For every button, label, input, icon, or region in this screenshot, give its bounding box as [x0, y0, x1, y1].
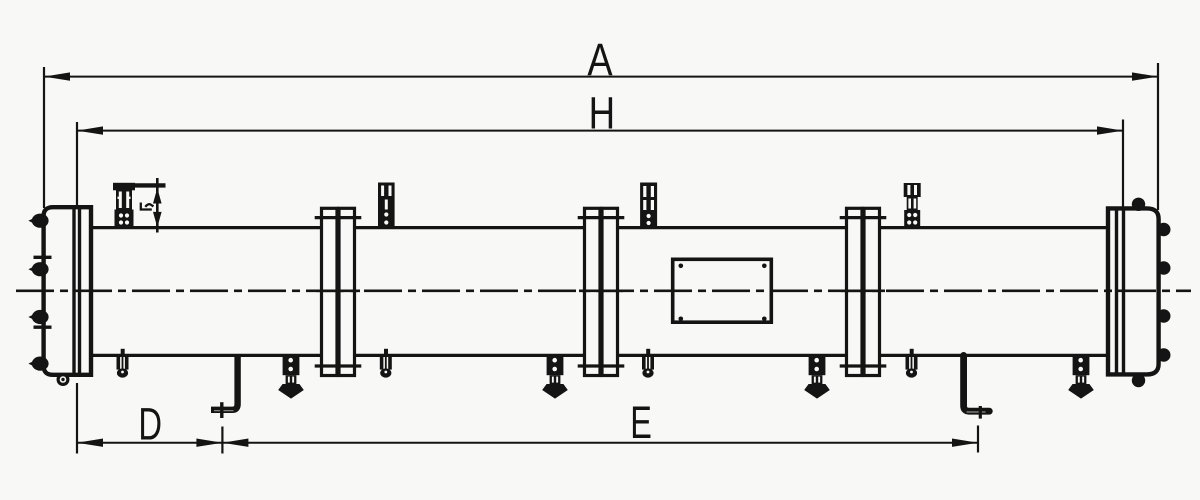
left head drain plug: [58, 375, 68, 385]
dimension H extension line right: [1122, 120, 1124, 208]
vessel shell bottom line: [89, 354, 1110, 357]
svg-text:H: H: [589, 88, 615, 138]
left head nozzle flange tick 2: [34, 256, 52, 259]
right tube sheet: [1115, 210, 1118, 374]
body flange pair 3: [840, 208, 887, 375]
right head side nozzle 1: [1157, 223, 1171, 237]
centerline solid crossing at flange pair 3: [841, 289, 885, 292]
nozzle height label (rotated): [141, 203, 152, 210]
left head (channel): [44, 207, 91, 375]
dimension A line: [44, 76, 1158, 78]
top nozzle T3: [640, 183, 657, 228]
right head side nozzle 3: [1157, 309, 1171, 323]
svg-text:E: E: [630, 399, 652, 448]
left head nozzle cap 3: [28, 310, 48, 324]
right L-shaped drain pipe: [964, 355, 990, 411]
left drain pipe flange disc: [220, 402, 223, 418]
right head (channel): [1108, 208, 1159, 374]
centerline solid crossing at flange pair 1: [316, 289, 360, 292]
left head nozzle cap 4: [28, 357, 48, 371]
nameplate: [673, 259, 772, 322]
top nozzle T2: [378, 183, 395, 228]
right head bottom nozzle: [1132, 374, 1145, 387]
body flange pair 2: [578, 208, 625, 375]
left head nozzle flange tick 3: [34, 326, 52, 329]
right drain pipe flange disc: [979, 406, 982, 419]
dimension D/E shared tick: [221, 427, 223, 454]
bottom stub B2: [380, 349, 392, 378]
bottom stub B4: [906, 349, 918, 378]
centerline solid crossing at flange pair 2: [579, 289, 623, 292]
dimension A extension line right: [1157, 63, 1159, 210]
dimension E extension tick right: [977, 426, 979, 453]
left head nozzle cap 2: [28, 262, 48, 276]
drain nozzle with flow arrow V3: [804, 355, 830, 398]
bottom stub B3: [642, 349, 654, 378]
dimension D extension line left: [76, 383, 78, 454]
dimension A extension line left: [43, 67, 45, 208]
drain nozzle with flow arrow V4: [1068, 355, 1094, 398]
right head side nozzle 2: [1157, 261, 1171, 275]
drain nozzle with flow arrow V2: [542, 355, 568, 398]
right head side nozzle 4: [1157, 348, 1171, 362]
dimension D line: [77, 442, 222, 444]
left tube sheet: [72, 208, 75, 374]
svg-text:A: A: [587, 34, 612, 85]
nozzle height mini dimension line: [156, 178, 159, 233]
top nozzle T4: [904, 183, 921, 228]
vessel shell top line: [89, 226, 1110, 229]
svg-text:D: D: [138, 400, 162, 450]
bottom stub B1: [117, 349, 129, 378]
nozzle T1 flange extension line: [113, 183, 166, 187]
drain nozzle with flow arrow V1: [278, 355, 304, 398]
dimension H extension line left: [76, 122, 78, 206]
top nozzle T1 (with flange): [113, 183, 135, 228]
left L-shaped drain pipe: [211, 355, 238, 409]
body flange pair 1: [315, 208, 362, 375]
dimension E line: [222, 442, 978, 444]
centerline (vessel axis): [16, 289, 1191, 292]
dimension H line: [77, 130, 1123, 132]
left head nozzle cap 1: [28, 214, 48, 228]
right head top nozzle: [1132, 198, 1145, 211]
